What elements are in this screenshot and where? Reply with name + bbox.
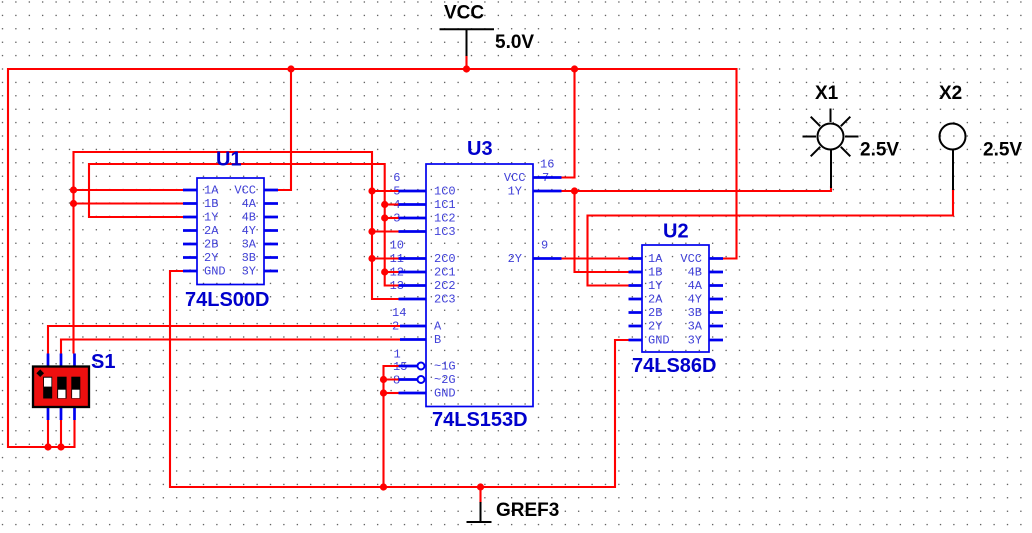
wire U3 strobe/GND chain <box>384 366 409 487</box>
svg-text:2.5V: 2.5V <box>983 140 1022 161</box>
svg-text:4B: 4B <box>688 266 702 280</box>
U3 pin stubs right <box>533 178 562 259</box>
svg-text:S1: S1 <box>91 351 115 373</box>
junction S1 bottom 1 <box>44 443 51 450</box>
svg-text:2C0: 2C0 <box>434 252 456 266</box>
wire net S1.1 to U1.1A/1B and U3 1C0/1C3/2C0/2C3 <box>74 152 399 354</box>
junction ~2G <box>380 376 387 383</box>
svg-text:3B: 3B <box>688 306 702 320</box>
junction top rail at U1 riser <box>287 65 294 72</box>
wire U1 VCC riser <box>278 69 291 190</box>
svg-text:U1: U1 <box>216 149 242 171</box>
svg-text:1C3: 1C3 <box>434 225 456 239</box>
wire U2.1Y to X2 <box>588 189 954 286</box>
wire branch to U3 ~2G <box>384 378 409 380</box>
svg-text:3B: 3B <box>242 251 256 265</box>
switch S1 DIP <box>33 354 89 421</box>
svg-text:VCC: VCC <box>680 252 702 266</box>
svg-text:4B: 4B <box>242 211 256 225</box>
wire VCC rail loop: S1 commons up left rail, top rail, down to U2 VCC <box>8 69 737 447</box>
S1 orientation diamond <box>36 369 44 377</box>
junction top rail at VCC symbol <box>463 65 470 72</box>
wire branch to U3 1C2 <box>385 217 399 219</box>
S1 slot 2 <box>57 377 66 399</box>
U3 pin stubs left <box>399 191 427 393</box>
wire branch to U1 1B <box>74 202 184 204</box>
svg-text:GREF3: GREF3 <box>496 500 559 521</box>
wire S1 pin5 bottom <box>60 420 62 447</box>
svg-text:2Y: 2Y <box>508 252 522 266</box>
svg-text:GND: GND <box>648 334 670 348</box>
svg-text:A: A <box>434 320 442 334</box>
svg-text:VCC: VCC <box>234 184 256 198</box>
svg-text:4A: 4A <box>242 197 257 211</box>
power symbol VCC <box>440 3 495 57</box>
svg-text:2Y: 2Y <box>204 251 218 265</box>
svg-text:2C2: 2C2 <box>434 279 456 293</box>
svg-text:1C0: 1C0 <box>434 185 456 199</box>
svg-text:X2: X2 <box>939 83 962 104</box>
svg-text:GND: GND <box>434 387 456 401</box>
svg-text:~1G: ~1G <box>434 360 456 374</box>
svg-text:1B: 1B <box>204 197 218 211</box>
svg-text:3Y: 3Y <box>688 334 702 348</box>
svg-text:2C3: 2C3 <box>434 293 456 307</box>
svg-text:2.5V: 2.5V <box>860 140 899 161</box>
svg-text:74LS00D: 74LS00D <box>185 289 270 311</box>
svg-text:U2: U2 <box>663 221 689 243</box>
junction top rail at U3 riser <box>571 65 578 72</box>
svg-text:6: 6 <box>393 171 400 185</box>
ground GREF3 <box>467 500 560 522</box>
junction gnd rail at U3 <box>380 483 387 490</box>
junction 1C0 <box>368 187 375 194</box>
svg-text:X1: X1 <box>815 83 839 104</box>
U3 pin numbers (under wires) <box>390 158 555 388</box>
junction 2C0 <box>368 255 375 262</box>
svg-text:1Y: 1Y <box>648 279 662 293</box>
wire ground net: U1 GND down, GREF3 rail, up to U2 GND <box>170 271 629 487</box>
svg-text:74LS86D: 74LS86D <box>632 355 717 377</box>
S1 slot 1 <box>43 377 52 399</box>
wire ground symbol tail <box>479 487 481 503</box>
svg-text:2B: 2B <box>648 306 662 320</box>
U2 pin stubs right <box>709 259 723 341</box>
U1 pin stubs right <box>264 190 278 271</box>
junction 1C3 <box>368 228 375 235</box>
U3 strobe bubble ~2G <box>418 376 425 383</box>
svg-text:U3: U3 <box>467 138 493 160</box>
wire U3.1Y to X1 <box>562 186 832 191</box>
svg-text:3A: 3A <box>242 238 257 252</box>
probe X2 (off) <box>940 124 966 191</box>
wire A select: S1.2 to U3.A <box>48 326 400 354</box>
svg-text:4Y: 4Y <box>242 224 256 238</box>
junction S1 bottom 2 <box>57 443 64 450</box>
svg-text:1Y: 1Y <box>204 211 218 225</box>
wire U3.2Y to U2.1A <box>562 257 629 259</box>
svg-text:9: 9 <box>541 239 548 253</box>
wire branch U3.1Y to U2.1B <box>575 191 629 272</box>
junction U1.1B <box>70 200 77 207</box>
junction gnd rail at symbol <box>477 483 484 490</box>
junction U1.1A <box>70 186 77 193</box>
wire U3 VCC riser <box>562 69 575 178</box>
junction 1C1 <box>381 201 388 208</box>
svg-text:10: 10 <box>390 239 404 253</box>
svg-text:2Y: 2Y <box>648 320 662 334</box>
wire branch to U3 1C1 <box>385 203 399 205</box>
svg-text:16: 16 <box>540 158 554 172</box>
svg-text:VCC: VCC <box>444 3 484 24</box>
svg-text:2B: 2B <box>204 238 218 252</box>
junction 2C1 <box>381 268 388 275</box>
svg-text:1C1: 1C1 <box>434 198 456 212</box>
probe X1 (lit) <box>803 109 859 189</box>
svg-text:4Y: 4Y <box>688 293 702 307</box>
X1 rays <box>830 109 832 123</box>
svg-text:5.0V: 5.0V <box>495 32 534 53</box>
svg-text:1A: 1A <box>648 252 663 266</box>
svg-text:74LS153D: 74LS153D <box>432 409 528 431</box>
svg-text:2C1: 2C1 <box>434 266 456 280</box>
svg-text:4A: 4A <box>688 279 703 293</box>
svg-text:14: 14 <box>392 306 406 320</box>
svg-text:1Y: 1Y <box>508 185 522 199</box>
svg-text:1A: 1A <box>204 184 219 198</box>
wire branch to U3 2C1 <box>385 271 399 273</box>
S1 top pin stubs <box>48 354 75 367</box>
svg-text:3A: 3A <box>688 320 703 334</box>
wire S1 pin4 bottom <box>47 420 49 447</box>
wire net U1.1Y to U3 1C1/1C2/2C1/2C2 <box>89 164 399 286</box>
svg-text:~2G: ~2G <box>434 373 456 387</box>
svg-text:B: B <box>434 333 441 347</box>
junction 1C2 <box>381 214 388 221</box>
wire branch to U3 1C0 <box>372 190 399 192</box>
wire branch to U3 GND <box>384 392 399 394</box>
wire branch to U3 2C0 <box>372 257 399 259</box>
junction U3 GND <box>380 389 387 396</box>
S1 body <box>33 367 89 408</box>
mux U3 74LS153D body <box>399 164 562 407</box>
wire B select: S1.3 to U3.B <box>61 340 400 354</box>
U1 pin stubs left <box>183 190 197 271</box>
wire branch to U3 1C3 <box>372 230 399 232</box>
wire branch to U1 1A <box>74 189 184 191</box>
S1 bottom pin stubs <box>48 407 75 420</box>
S1 slot 3 <box>71 377 80 399</box>
svg-text:1B: 1B <box>648 266 662 280</box>
svg-text:2A: 2A <box>648 293 663 307</box>
svg-text:VCC: VCC <box>504 171 526 185</box>
U3 strobe bubble ~1G <box>418 363 425 370</box>
junction 1Y node <box>571 187 578 194</box>
wire VCC symbol tail <box>465 55 467 70</box>
svg-text:GND: GND <box>204 265 226 279</box>
U2 pin stubs left <box>629 259 643 341</box>
svg-text:3Y: 3Y <box>242 265 256 279</box>
svg-text:1C2: 1C2 <box>434 212 456 226</box>
op U1 74LS00D body <box>183 178 278 285</box>
svg-text:2A: 2A <box>204 224 219 238</box>
xor U2 74LS86D body <box>629 245 724 352</box>
